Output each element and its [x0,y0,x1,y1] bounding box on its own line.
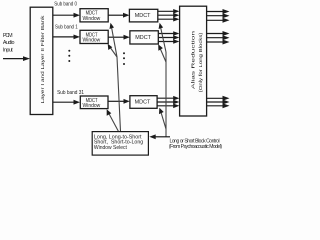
control trunk bend to mdct1 [160,26,166,52]
MDCT box 2 [130,31,158,44]
arrowhead to window1 corner [110,23,115,29]
svg-text:Layer I and Layer II Filter Ba: Layer I and Layer II Filter Bank [40,15,45,104]
wires mdct2 to alias box (3 lines) [158,31,179,44]
wire window1 to mdct1 arrow [108,13,129,18]
control branch to window2 [109,46,117,58]
arrowhead to mdct1 corner [159,23,164,29]
block control wire into window select box [149,134,170,139]
svg-text:MDCT: MDCT [135,13,151,19]
window select box [92,132,148,156]
window select control trunk to window1 [111,26,120,132]
svg-text:Window Select: Window Select [94,145,127,151]
MDCT box 3 [130,96,157,109]
svg-text:MDCT: MDCT [135,100,151,106]
svg-text:(From Psychoacoustic Model): (From Psychoacoustic Model) [169,144,222,150]
output arrows group 3 [207,96,230,109]
svg-text:Window: Window [83,16,101,22]
svg-text:Sub band 0: Sub band 0 [54,2,77,8]
PCM Audio Input label [3,33,15,54]
arrowhead to window2 corner [108,44,113,50]
wires mdct3 to alias box (3 lines) [157,96,179,108]
svg-text:MDCT: MDCT [135,35,151,41]
MDCT Window box 1 [80,9,108,22]
wire sub band 0 arrow [53,13,80,18]
PCM input arrow [3,56,30,61]
svg-text:Sub band 1: Sub band 1 [55,25,78,31]
arrowhead to window3 corner [107,109,112,115]
svg-text:(Only for Long Blocks): (Only for Long Blocks) [198,32,203,92]
control branch to mdct3 [160,110,166,129]
filter bank box [30,7,53,114]
svg-text:Alias Reduction: Alias Reduction [191,30,196,89]
wires mdct1 to alias box (3 lines) [158,9,180,22]
svg-text:Audio: Audio [3,40,15,46]
control branch to mdct2 [159,47,166,63]
MDCT Window box 2 [80,30,108,43]
output arrows group 1 [207,9,230,23]
wire window3 to mdct3 arrow [108,99,130,104]
MDCT Window box 3 [80,96,108,109]
arrowhead to mdct3 corner [159,108,164,114]
output arrows group 2 [207,31,230,45]
svg-text:PCM: PCM [3,33,13,39]
ellipsis dots left column [68,50,70,62]
ellipsis dots middle column [123,52,125,65]
wire sub band 1 arrow [53,35,80,40]
long or short block control label [169,139,222,150]
control branch to window3 [108,112,119,132]
svg-text:Input: Input [3,47,13,53]
alias reduction box [180,6,207,116]
svg-text:Sub band 31: Sub band 31 [57,90,84,96]
wire window2 to mdct2 arrow [108,35,130,40]
wire sub band 31 arrow [53,100,80,105]
svg-text:Window: Window [83,103,101,109]
svg-text:Window: Window [83,38,101,44]
control trunk (right) vertical [165,52,167,137]
MDCT box 1 [129,9,157,22]
arrowhead to mdct2 corner [158,44,163,50]
